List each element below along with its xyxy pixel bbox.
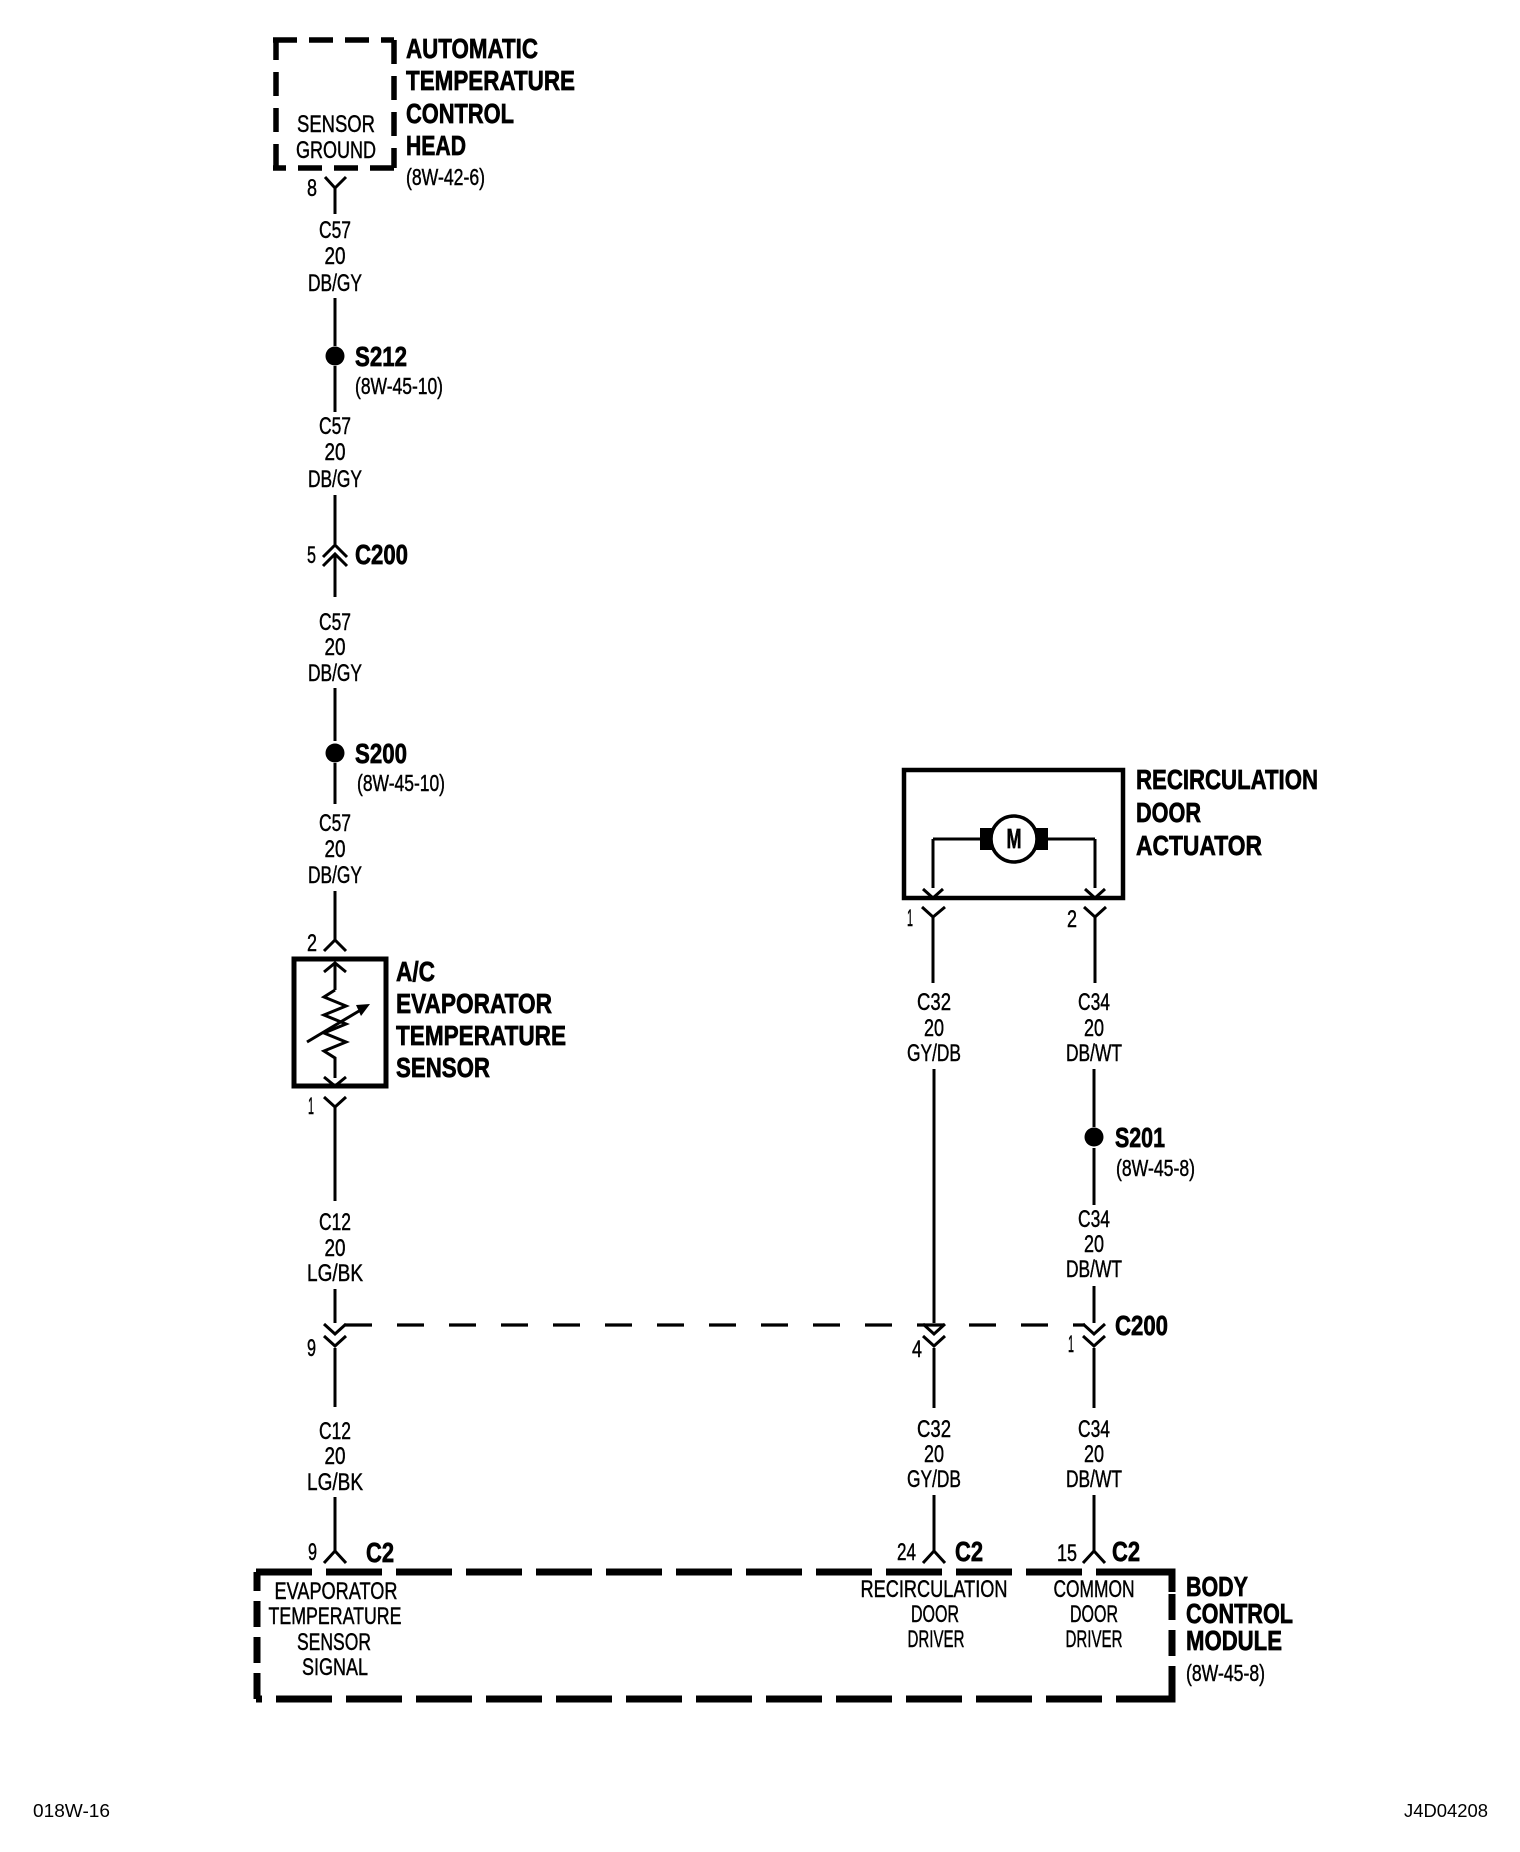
svg-text:GY/DB: GY/DB	[907, 1466, 961, 1493]
svg-text:RECIRCULATION: RECIRCULATION	[1136, 764, 1318, 795]
svg-text:DB/GY: DB/GY	[308, 466, 362, 493]
svg-text:DB/WT: DB/WT	[1066, 1256, 1122, 1283]
svg-text:20: 20	[325, 439, 346, 466]
svg-text:C2: C2	[1112, 1536, 1140, 1567]
svg-text:20: 20	[1084, 1231, 1104, 1258]
svg-text:EVAPORATOR: EVAPORATOR	[396, 988, 552, 1019]
svg-text:LG/BK: LG/BK	[307, 1469, 363, 1496]
svg-text:1: 1	[1068, 1331, 1074, 1358]
svg-text:CONTROL: CONTROL	[406, 98, 514, 129]
svg-text:(8W-45-8): (8W-45-8)	[1186, 1660, 1265, 1686]
svg-text:GY/DB: GY/DB	[907, 1040, 961, 1067]
svg-text:C2: C2	[366, 1537, 394, 1568]
svg-text:AUTOMATIC: AUTOMATIC	[406, 33, 538, 64]
svg-text:9: 9	[308, 1539, 317, 1566]
svg-text:2: 2	[1067, 906, 1077, 933]
svg-text:SENSOR: SENSOR	[297, 1629, 371, 1656]
svg-text:C200: C200	[1115, 1310, 1168, 1341]
svg-text:C57: C57	[319, 810, 351, 837]
svg-text:C57: C57	[319, 413, 351, 440]
svg-text:20: 20	[1084, 1015, 1104, 1042]
svg-text:DB/WT: DB/WT	[1066, 1466, 1122, 1493]
svg-text:1: 1	[907, 905, 913, 932]
svg-text:DB/GY: DB/GY	[308, 270, 362, 297]
svg-text:20: 20	[325, 1443, 346, 1470]
svg-text:(8W-45-10): (8W-45-10)	[355, 373, 443, 399]
svg-text:20: 20	[325, 836, 346, 863]
svg-text:20: 20	[924, 1015, 944, 1042]
svg-text:MODULE: MODULE	[1186, 1625, 1282, 1656]
svg-text:018W-16: 018W-16	[33, 1801, 110, 1821]
svg-text:C34: C34	[1078, 1206, 1110, 1233]
svg-text:J4D04208: J4D04208	[1404, 1801, 1488, 1821]
svg-text:A/C: A/C	[396, 956, 435, 987]
svg-text:C34: C34	[1078, 989, 1110, 1016]
svg-text:DOOR: DOOR	[911, 1601, 959, 1628]
svg-text:C200: C200	[355, 539, 408, 570]
svg-text:C57: C57	[319, 217, 351, 244]
svg-text:TEMPERATURE: TEMPERATURE	[396, 1020, 566, 1051]
svg-text:DB/GY: DB/GY	[308, 862, 362, 889]
svg-text:20: 20	[325, 634, 346, 661]
svg-text:(8W-45-10): (8W-45-10)	[357, 770, 445, 796]
svg-text:TEMPERATURE: TEMPERATURE	[406, 65, 575, 96]
svg-text:DRIVER: DRIVER	[908, 1626, 965, 1653]
svg-text:DRIVER: DRIVER	[1066, 1626, 1123, 1653]
svg-text:4: 4	[912, 1336, 922, 1363]
svg-text:1: 1	[308, 1093, 314, 1120]
svg-text:2: 2	[307, 930, 317, 957]
svg-text:DOOR: DOOR	[1070, 1601, 1118, 1628]
svg-text:C2: C2	[955, 1536, 983, 1567]
svg-text:GROUND: GROUND	[296, 137, 376, 164]
svg-text:HEAD: HEAD	[406, 130, 466, 161]
svg-text:DOOR: DOOR	[1136, 797, 1201, 828]
svg-text:S200: S200	[355, 738, 407, 769]
svg-text:TEMPERATURE: TEMPERATURE	[269, 1603, 402, 1630]
svg-text:C32: C32	[917, 1416, 951, 1443]
svg-text:9: 9	[307, 1335, 316, 1362]
svg-text:C12: C12	[319, 1209, 351, 1236]
svg-text:SENSOR: SENSOR	[297, 111, 375, 138]
svg-text:M: M	[1007, 823, 1022, 854]
svg-text:SENSOR: SENSOR	[396, 1052, 490, 1083]
svg-text:DB/GY: DB/GY	[308, 660, 362, 687]
svg-text:C32: C32	[917, 989, 951, 1016]
svg-text:C57: C57	[319, 609, 351, 636]
svg-text:ACTUATOR: ACTUATOR	[1136, 830, 1262, 861]
svg-text:20: 20	[924, 1441, 944, 1468]
svg-text:20: 20	[325, 1235, 346, 1262]
svg-text:20: 20	[325, 243, 346, 270]
svg-text:SIGNAL: SIGNAL	[302, 1654, 368, 1681]
svg-text:C34: C34	[1078, 1416, 1110, 1443]
svg-text:LG/BK: LG/BK	[307, 1260, 363, 1287]
svg-text:5: 5	[307, 542, 316, 569]
svg-text:20: 20	[1084, 1441, 1104, 1468]
svg-text:(8W-45-8): (8W-45-8)	[1116, 1155, 1195, 1181]
svg-text:8: 8	[307, 175, 317, 202]
svg-text:C12: C12	[319, 1418, 351, 1445]
svg-text:RECIRCULATION: RECIRCULATION	[861, 1576, 1008, 1603]
svg-text:24: 24	[897, 1539, 916, 1566]
svg-text:S212: S212	[355, 341, 407, 372]
svg-text:COMMON: COMMON	[1054, 1576, 1135, 1603]
svg-text:(8W-42-6): (8W-42-6)	[406, 164, 485, 190]
svg-text:DB/WT: DB/WT	[1066, 1040, 1122, 1067]
svg-text:15: 15	[1057, 1540, 1077, 1567]
svg-text:EVAPORATOR: EVAPORATOR	[275, 1578, 398, 1605]
svg-text:S201: S201	[1115, 1122, 1165, 1153]
